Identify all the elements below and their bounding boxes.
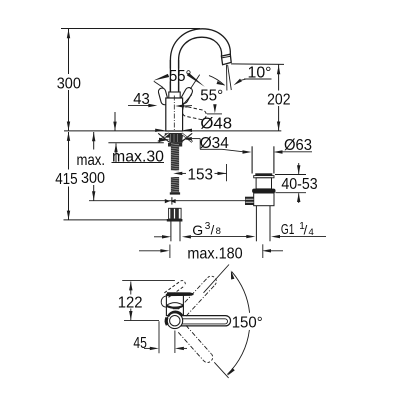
- bottom view lever solid: [167, 292, 194, 296]
- swivel ring: [166, 312, 182, 329]
- svg-text:4: 4: [309, 227, 314, 238]
- lever hub dome: [166, 303, 183, 310]
- svg-text:G1: G1: [281, 221, 295, 238]
- drain top plug: [252, 146, 274, 178]
- svg-text:Ø48: Ø48: [200, 114, 232, 132]
- drain body: [254, 193, 274, 206]
- countertop line: [64, 130, 281, 132]
- label 55 deg second: [175, 86, 223, 114]
- dimension 122: [118, 281, 143, 320]
- dimension 300: [57, 29, 81, 131]
- bottom view 122 reference lines: [122, 281, 175, 321]
- dimension 45: [133, 321, 187, 353]
- dimension max.180: [139, 244, 283, 262]
- water stream: [227, 65, 232, 91]
- phantom spout upper: [186, 285, 215, 316]
- mounting flange with bolts: [158, 133, 192, 147]
- riser base: [169, 92, 180, 98]
- rod adjuster joint: [165, 197, 176, 204]
- dimension 415: [55, 132, 177, 220]
- drain tailpipe: [256, 206, 270, 242]
- label 43: [128, 90, 157, 108]
- label 10 deg: [209, 63, 272, 85]
- svg-text:max.180: max.180: [187, 245, 242, 263]
- svg-text:202: 202: [267, 90, 290, 108]
- dimension max.30: [112, 112, 165, 165]
- svg-text:40-53: 40-53: [281, 175, 317, 193]
- dimension O63: [200, 136, 312, 154]
- counter underside line: [108, 142, 163, 144]
- swivel arc 150 deg: [232, 272, 250, 313]
- aerator outlet: [221, 54, 231, 64]
- dimension O34 leader: [183, 134, 229, 152]
- svg-text:max.: max.: [77, 151, 106, 169]
- svg-text:122: 122: [118, 294, 143, 312]
- dimension G1 1/4: [246, 221, 326, 238]
- lever left position: [158, 87, 169, 105]
- svg-text:153: 153: [188, 165, 214, 183]
- svg-text:8: 8: [216, 226, 221, 237]
- dimension G3/8: [154, 221, 247, 239]
- arc end rays and arrows: [204, 265, 235, 378]
- top reference line: [61, 28, 200, 30]
- phantom spout lower: [178, 332, 203, 360]
- supply pipe: [171, 222, 180, 242]
- svg-text:300: 300: [57, 74, 81, 92]
- svg-text:55°: 55°: [200, 86, 223, 104]
- svg-text:Ø63: Ø63: [284, 136, 312, 154]
- svg-text:/: /: [304, 222, 308, 237]
- svg-text:/: /: [211, 223, 215, 238]
- lever raised dashed: [164, 281, 185, 298]
- drain neck: [256, 178, 271, 189]
- riser tube: [170, 60, 178, 92]
- svg-text:150°: 150°: [232, 313, 263, 331]
- pop-up rod: [89, 200, 246, 202]
- dimension 40-53: [275, 163, 318, 203]
- threaded shank: [170, 143, 180, 195]
- bottom view body: [161, 294, 183, 315]
- svg-text:300: 300: [81, 169, 105, 187]
- dimension 202: [231, 64, 291, 131]
- svg-text:G: G: [192, 222, 203, 238]
- svg-text:415: 415: [55, 170, 78, 188]
- dimension 153: [173, 164, 226, 183]
- dimension O48: [155, 114, 232, 132]
- rod knob on drain: [245, 197, 254, 205]
- label 55 deg first: [153, 67, 205, 89]
- drain seal ring: [252, 189, 275, 193]
- supply connection valve: [167, 208, 183, 221]
- svg-text:45: 45: [133, 334, 147, 352]
- dimension max.300: [77, 132, 106, 201]
- faucet body: [166, 96, 183, 132]
- spout bottom view solid: [176, 316, 231, 326]
- lever right position: [179, 86, 194, 104]
- lever open position dashed: [181, 106, 207, 120]
- spout gooseneck: [170, 29, 230, 92]
